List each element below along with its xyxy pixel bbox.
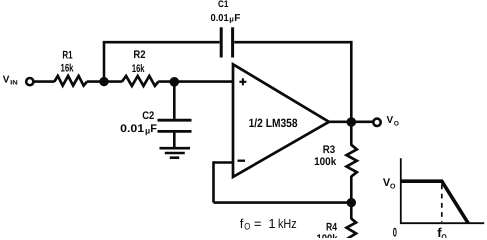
junction node A — [99, 77, 108, 86]
svg-text:kHz: kHz — [278, 216, 297, 231]
graph label VO — [383, 177, 396, 190]
op-amp + input marker — [239, 78, 246, 85]
resistor R4 — [347, 219, 357, 239]
wire R2 to node B and op-amp + input — [158, 80, 233, 83]
wire R3 to feedback node — [350, 176, 353, 203]
svg-text:R2: R2 — [133, 49, 145, 61]
wire node A riser to top rail — [103, 42, 106, 81]
graph dashed line at fO — [441, 185, 443, 223]
label fO = 1 kHz — [240, 216, 297, 233]
label C2 value 0.01uF — [120, 123, 157, 135]
wire top rail left — [103, 41, 220, 44]
resistor R1 — [54, 76, 87, 86]
svg-text:=: = — [254, 216, 262, 231]
svg-text:V: V — [3, 75, 10, 86]
svg-text:O: O — [244, 222, 250, 233]
wire VIN to R1 — [34, 80, 55, 83]
svg-text:O: O — [394, 121, 399, 128]
wire node B down to C2 — [173, 82, 176, 119]
wire top rail right — [234, 41, 351, 44]
wire R1 to node A — [87, 80, 104, 83]
wire C2 to ground — [173, 131, 176, 148]
op-amp - input marker — [238, 160, 246, 162]
capacitor C1 — [221, 27, 232, 57]
svg-text:C1: C1 — [218, 0, 229, 10]
wire output node down to R3 — [350, 122, 353, 146]
svg-text:IN: IN — [10, 79, 18, 86]
svg-text:16k: 16k — [61, 63, 75, 75]
wire feedback vertical — [212, 161, 215, 202]
label C1 value 0.01uF — [211, 13, 241, 24]
junction node B — [170, 77, 180, 87]
svg-text:1/2 LM358: 1/2 LM358 — [249, 116, 298, 130]
svg-text:0: 0 — [393, 226, 397, 238]
svg-text:F: F — [150, 123, 157, 135]
graph response curve — [401, 181, 468, 223]
capacitor C2 — [158, 120, 192, 131]
svg-text:R1: R1 — [62, 50, 72, 62]
label VO — [387, 115, 399, 127]
wire feedback node down to R4 — [350, 203, 353, 220]
wire feedback bottom to feedback node — [214, 201, 352, 204]
svg-text:100k: 100k — [317, 233, 339, 238]
svg-text:100k: 100k — [314, 156, 337, 168]
ground — [160, 148, 191, 158]
graph label fO — [437, 225, 447, 240]
svg-text:O: O — [390, 183, 396, 190]
svg-text:0.01: 0.01 — [211, 13, 230, 24]
terminal VO — [373, 119, 380, 126]
wire feedback horizontal from - input — [214, 161, 234, 164]
svg-text:0.01: 0.01 — [120, 123, 144, 135]
svg-text:R4: R4 — [326, 221, 338, 233]
wire node A to R2 — [104, 80, 122, 83]
svg-text:f: f — [240, 216, 244, 231]
wire op-amp output to terminal — [329, 121, 373, 124]
wire rail down to output node — [350, 41, 353, 122]
svg-text:F: F — [234, 13, 240, 24]
junction feedback node — [347, 198, 356, 207]
resistor R2 — [122, 76, 158, 86]
terminal VIN — [26, 78, 33, 85]
svg-text:R3: R3 — [323, 144, 335, 156]
op-amp U1 (1/2 LM358) — [233, 64, 329, 177]
svg-text:O: O — [441, 232, 447, 238]
svg-text:1: 1 — [268, 216, 275, 231]
junction output node — [347, 117, 357, 127]
resistor R3 — [347, 145, 357, 177]
graph axes — [400, 158, 484, 223]
svg-text:V: V — [387, 115, 394, 126]
svg-text:16k: 16k — [132, 63, 145, 75]
label VIN — [3, 75, 18, 87]
svg-text:C2: C2 — [142, 110, 154, 122]
